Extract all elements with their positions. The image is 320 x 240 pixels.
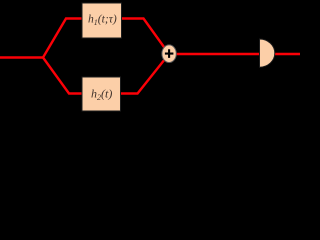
wire: bottom box output to summer (121, 54, 170, 94)
svg-text:h1(t;τ): h1(t;τ) (88, 13, 117, 28)
summer node (162, 45, 176, 63)
plus sign of summer (165, 49, 174, 58)
block h1(t;tau) (82, 3, 122, 38)
D-shaped element (half disc) (260, 39, 275, 67)
wire: top box output to summer (122, 19, 170, 55)
block h2(t) (82, 77, 121, 111)
wire: summer output to right edge (169, 53, 300, 55)
wire: junction up-diagonal to top branch (43, 19, 82, 58)
svg-text:h2(t): h2(t) (91, 87, 112, 103)
wire: input from left edge to junction (0, 56, 43, 58)
wire: junction down-diagonal to bottom branch (43, 58, 82, 94)
